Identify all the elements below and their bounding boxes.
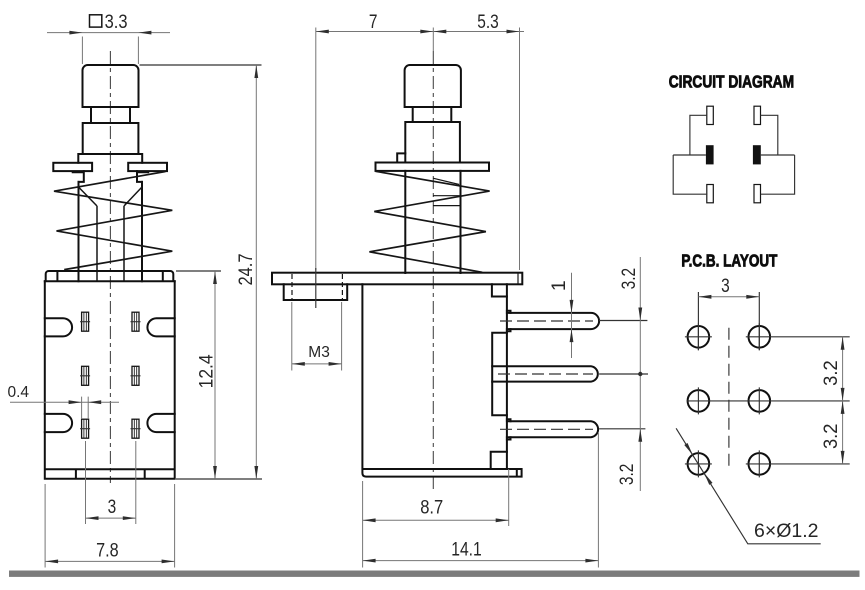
svg-text:3.2: 3.2 xyxy=(820,424,842,450)
svg-text:M3: M3 xyxy=(308,344,330,361)
svg-text:5.3: 5.3 xyxy=(477,11,499,33)
svg-text:3.2: 3.2 xyxy=(618,268,640,290)
svg-text:8.7: 8.7 xyxy=(420,497,443,519)
svg-text:3.2: 3.2 xyxy=(616,464,638,486)
svg-text:7: 7 xyxy=(369,11,378,33)
svg-text:12.4: 12.4 xyxy=(196,354,218,388)
svg-text:0.4: 0.4 xyxy=(8,384,30,401)
svg-text:24.7: 24.7 xyxy=(235,254,257,286)
svg-text:3: 3 xyxy=(721,275,730,297)
svg-text:14.1: 14.1 xyxy=(451,538,482,560)
svg-text:6×Ø1.2: 6×Ø1.2 xyxy=(754,520,819,542)
svg-text:P.C.B. LAYOUT: P.C.B. LAYOUT xyxy=(681,250,777,270)
svg-text:CIRCUIT DIAGRAM: CIRCUIT DIAGRAM xyxy=(669,72,794,92)
svg-text:1: 1 xyxy=(548,280,570,291)
svg-text:7.8: 7.8 xyxy=(96,540,119,562)
svg-text:3.2: 3.2 xyxy=(820,360,842,386)
svg-text:3.3: 3.3 xyxy=(105,11,128,33)
svg-text:3: 3 xyxy=(108,496,117,518)
